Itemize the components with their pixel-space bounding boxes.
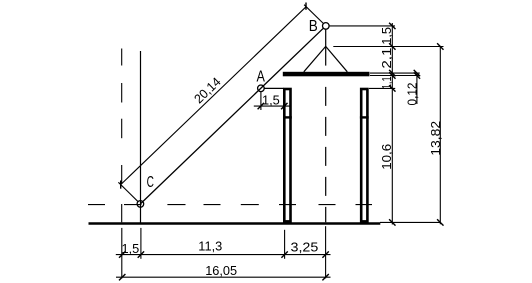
extension line bar bottom [370,75,420,77]
svg-text:1,1: 1,1 [379,76,394,89]
extension below ground x141 [140,228,142,259]
extension below ground x326 [325,226,327,278]
svg-text:B: B [309,18,318,35]
wire from A to column [264,87,283,89]
extension below A [260,92,262,110]
dimension line 1,5 at A [254,105,291,107]
extension perpendicular at C [118,182,138,201]
dimension line 13,82 [439,47,441,225]
node A circle [258,85,265,92]
beam thick bar [283,72,370,77]
extension below ground x285 [284,230,286,259]
column right [361,89,367,221]
wire dashed vertical axis left [121,49,123,66]
wire triangle right leg [326,46,348,71]
dimension chain line right [391,23,393,225]
extension below ground x122 [121,228,123,279]
wire member C-B diagonal [140,28,323,204]
svg-text:A: A [257,68,266,85]
column left [284,89,290,221]
bottom dimension line 1 [116,254,331,256]
node B circle [323,23,330,30]
svg-text:1,5: 1,5 [122,241,140,256]
node C circle [137,201,144,208]
svg-text:0,12: 0,12 [405,83,420,106]
wire triangle left leg [304,46,326,71]
wire vertical solid line at C [140,51,142,223]
tick marks vertical dims [389,23,443,226]
extension line column top [369,87,395,89]
wire dashed horizontal axis [88,204,105,206]
svg-text:13,82: 13,82 [428,121,443,156]
column right rung [360,116,369,118]
dimension line 20,14 diagonal [121,7,306,185]
ground thick line [89,222,381,225]
leader 0,12 [416,73,418,104]
extension line from B [329,25,395,27]
svg-text:C: C [147,174,154,191]
ground thin extension right [380,221,441,223]
svg-text:3,25: 3,25 [291,240,319,255]
bottom dimension line 2 [116,276,331,278]
wire dashed center axis below bar [325,87,327,222]
extension line bar top [370,72,420,74]
wire vertical segment below B [325,29,327,65]
svg-text:10,6: 10,6 [379,144,394,170]
svg-text:1,5: 1,5 [262,93,280,108]
tick marks horizontal dims [119,103,329,281]
tick marks 45deg dim [305,3,307,10]
extension perpendicular at B [304,5,323,24]
svg-text:1,5: 1,5 [379,27,394,45]
svg-text:11,3: 11,3 [198,239,222,254]
svg-text:16,05: 16,05 [205,263,237,278]
extension line at apex level [333,46,443,48]
svg-text:2,1: 2,1 [379,48,394,69]
column left rung [283,116,292,118]
